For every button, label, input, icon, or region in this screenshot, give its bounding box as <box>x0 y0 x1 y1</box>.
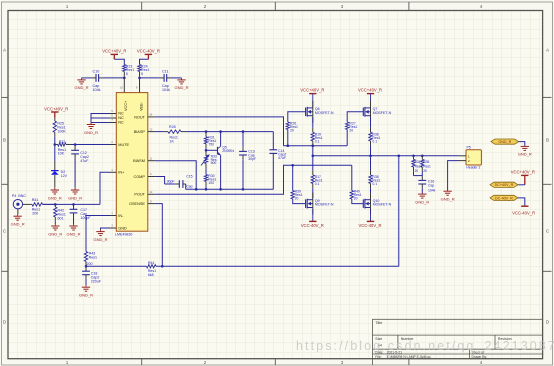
svg-text:13: 13 <box>149 190 153 194</box>
pin 13 stub <box>148 190 155 194</box>
resistor R39 (gate, Q9) <box>291 164 306 204</box>
svg-text:5: 5 <box>141 72 143 76</box>
resistor R26 (gate) <box>286 112 306 146</box>
svg-text:MOSFET-N: MOSFET-N <box>373 111 392 115</box>
svg-text:104k: 104k <box>162 88 170 92</box>
svg-text:GND_R: GND_R <box>84 130 98 135</box>
watermark URL <box>296 339 554 353</box>
svg-text:File:: File: <box>375 355 381 359</box>
svg-text:Res1: Res1 <box>423 165 431 169</box>
wire R32 to MUTE pin <box>75 144 109 146</box>
resistor R30 <box>204 174 216 189</box>
transistor Q6 MOSFET-N <box>306 94 334 123</box>
svg-text:200: 200 <box>87 262 93 266</box>
svg-text:GND_R: GND_R <box>441 197 455 202</box>
wire port GND_R to ground <box>519 142 525 146</box>
svg-text:1K: 1K <box>170 140 175 144</box>
svg-text:12: 12 <box>149 127 153 131</box>
wire COMP to C15 <box>155 177 164 185</box>
wire feedback net <box>86 156 399 268</box>
svg-text:NC: NC <box>118 116 124 120</box>
svg-text:47uF: 47uF <box>278 156 286 160</box>
svg-text:VCC+40V_R: VCC+40V_R <box>300 87 324 92</box>
svg-text:500: 500 <box>211 161 217 165</box>
svg-text:DC+40V_R: DC+40V_R <box>495 183 514 187</box>
svg-text:30pF: 30pF <box>248 157 256 161</box>
svg-text:MUTE: MUTE <box>118 143 129 147</box>
ground GND_R at NC pins <box>84 123 98 135</box>
svg-text:Cap: Cap <box>186 185 192 189</box>
svg-text:MOSFET-N: MOSFET-N <box>315 111 334 115</box>
svg-text:100K: 100K <box>57 129 66 133</box>
ground GND_R at C11 <box>174 78 188 90</box>
svg-text:VCC-40V_R: VCC-40V_R <box>301 223 324 228</box>
connector P4 BNC <box>12 194 31 214</box>
ground GND_R at D2 <box>48 188 62 200</box>
svg-text:20: 20 <box>295 196 299 200</box>
ground GND_R at header <box>441 191 455 202</box>
svg-text:0.1: 0.1 <box>372 182 377 186</box>
svg-text:4: 4 <box>480 4 483 9</box>
svg-text:VCC+40V_R: VCC+40V_R <box>102 48 126 53</box>
svg-text:2: 2 <box>204 360 207 365</box>
svg-text:C15: C15 <box>186 174 192 178</box>
capacitor C15 <box>165 174 193 188</box>
title block <box>373 319 543 365</box>
wire to IN+ pin <box>100 172 109 204</box>
svg-text:R44: R44 <box>148 261 154 265</box>
pin 5 stub (left) <box>109 109 116 113</box>
resistor R34 <box>412 156 422 176</box>
diode D2 zener 12V <box>51 170 68 188</box>
svg-text:GND_R: GND_R <box>68 195 82 200</box>
wire POUT net <box>155 165 352 194</box>
resistor R19 (source) <box>311 117 323 156</box>
node feedback junction <box>85 265 88 268</box>
wire DC-40V_R port to VCC- <box>518 198 525 206</box>
svg-text:30pF: 30pF <box>167 179 175 183</box>
svg-text:NC: NC <box>118 112 124 116</box>
resistor R28 <box>155 125 185 143</box>
svg-text:16: 16 <box>120 86 124 90</box>
svg-text:104k: 104k <box>93 88 101 92</box>
pin V- (IC top pin stub) <box>136 78 140 93</box>
op-amp driver IC U5 LME49830 <box>116 93 148 232</box>
svg-text:20: 20 <box>423 169 427 173</box>
svg-text:14: 14 <box>149 113 153 117</box>
wire output rail <box>312 155 459 158</box>
svg-text:GND_R: GND_R <box>93 237 107 242</box>
node R31/R33 junction <box>205 149 208 152</box>
svg-text:Header 2: Header 2 <box>466 166 480 170</box>
capacitor C12 <box>71 145 89 188</box>
svg-text:IN-: IN- <box>118 214 124 218</box>
svg-text:D2: D2 <box>61 170 66 174</box>
svg-text:VCC+40V_R: VCC+40V_R <box>44 106 68 111</box>
pin 1 stub (left) <box>109 211 116 215</box>
svg-text:P5: P5 <box>467 146 471 150</box>
svg-text:MOSFET-N: MOSFET-N <box>373 203 392 207</box>
svg-text:P4: P4 <box>12 194 16 198</box>
resistor R23 <box>123 64 135 78</box>
ground GND_R at C12 <box>68 188 82 200</box>
port DC+40V_R <box>490 182 518 187</box>
resistor R24 <box>138 64 150 78</box>
wire GND pin to ground <box>101 228 110 230</box>
wire GSENSE net <box>155 204 162 267</box>
svg-text:2: 2 <box>204 4 207 9</box>
resistor R35 <box>421 156 431 176</box>
port DC-40V_R <box>490 195 518 200</box>
svg-text:GSENSE: GSENSE <box>129 202 145 206</box>
svg-text:104k: 104k <box>428 188 436 192</box>
svg-text:BNC: BNC <box>18 194 26 198</box>
svg-text:GND_R: GND_R <box>174 85 188 90</box>
svg-text:12V: 12V <box>61 174 68 178</box>
svg-text:VCC-40V_R: VCC-40V_R <box>358 223 381 228</box>
resistor R38 (source, Q10) <box>369 156 381 199</box>
svg-text:0.1: 0.1 <box>315 182 320 186</box>
node MUTE junction <box>54 143 57 146</box>
resistor R36 (source) <box>369 117 381 156</box>
svg-text:DC-40V_R: DC-40V_R <box>495 196 513 200</box>
svg-text:601: 601 <box>58 217 64 221</box>
wire VCC- to R24 <box>140 59 149 64</box>
svg-text:GND_R: GND_R <box>48 231 62 236</box>
svg-text:R32: R32 <box>59 140 66 144</box>
svg-text:20: 20 <box>415 169 419 173</box>
svg-text:BIASP: BIASP <box>134 130 146 134</box>
svg-text:B: B <box>3 138 6 143</box>
ground GND_R at IC GND pin <box>93 230 107 242</box>
svg-text:R35: R35 <box>423 160 429 164</box>
power symbol VCC-40V_R (top, feeds R24) <box>137 48 160 59</box>
svg-text:20: 20 <box>290 129 294 133</box>
svg-text:0.1: 0.1 <box>372 139 377 143</box>
svg-text:20: 20 <box>349 129 353 133</box>
svg-text:20: 20 <box>354 196 358 200</box>
ground GND_R at C18 <box>79 285 93 297</box>
svg-text:R41: R41 <box>32 198 39 202</box>
power symbol VCC-40V_R at Q9 <box>301 221 324 228</box>
svg-text:R28: R28 <box>169 125 176 129</box>
svg-text:GND_R: GND_R <box>66 231 80 236</box>
svg-text:200: 200 <box>32 212 38 216</box>
svg-text:220uF: 220uF <box>91 280 102 284</box>
node V+ junction <box>123 77 126 80</box>
wire IN- to feedback node <box>86 216 109 252</box>
pin 8 stub <box>148 199 155 203</box>
power symbol VCC-40V_R at Q10 <box>358 221 381 228</box>
power symbol VCC-40V_R at DC port <box>512 206 535 215</box>
ground GND_R at C17 <box>66 224 80 236</box>
resistor R40 (gate, Q10) <box>350 165 363 203</box>
pin 6 stub (left) <box>109 114 116 118</box>
svg-text:BIASM: BIASM <box>133 159 145 163</box>
capacitor C14 <box>269 132 286 190</box>
svg-text:E:\MBKR8 N:\ AMP E-5cM.sc: E:\MBKR8 N:\ AMP E-5cM.sc <box>387 355 432 359</box>
svg-text:R34: R34 <box>415 160 421 164</box>
resistor R17 (source, Q9) <box>311 156 323 199</box>
resistor R31 <box>204 132 216 151</box>
resistor R27 (gate) <box>346 112 364 146</box>
svg-text:NC: NC <box>118 121 124 125</box>
node V- junction <box>138 77 141 80</box>
wire header pin2 to ground <box>448 161 459 191</box>
svg-text:10K: 10K <box>58 152 65 156</box>
power symbol VCC+40V_R (top, feeds R23) <box>102 48 126 59</box>
svg-text:GND: GND <box>118 227 127 231</box>
resistor R43 <box>84 251 97 266</box>
capacitor C17 <box>70 204 92 224</box>
pin 2 stub (left) <box>109 140 116 144</box>
ground GND_R at port <box>518 146 532 157</box>
svg-text:3: 3 <box>341 360 344 365</box>
capacitor C18 <box>82 266 102 285</box>
transistor Q9 MOSFET-N <box>306 193 334 222</box>
pin 4 stub (left) <box>109 168 116 172</box>
power symbol VCC+40V_R (mute pull-up) <box>44 106 68 117</box>
svg-text:GND_R: GND_R <box>74 85 88 90</box>
svg-text:VEE-: VEE- <box>139 101 143 111</box>
svg-text:47uF: 47uF <box>80 159 89 163</box>
wire VCC+ to R23 <box>114 59 124 64</box>
transistor Q7 MOSFET-N <box>363 94 391 123</box>
svg-text:GND_R: GND_R <box>498 140 511 144</box>
svg-text:VCC+40V_R: VCC+40V_R <box>511 169 535 174</box>
pin 7 stub (left) <box>109 118 116 122</box>
pin 11 stub <box>148 156 155 160</box>
svg-text:1: 1 <box>66 4 69 9</box>
wire BIASP rail <box>185 130 273 133</box>
resistor R42 <box>54 204 66 224</box>
svg-text:B: B <box>546 138 549 143</box>
svg-text:Res1: Res1 <box>89 255 97 259</box>
connector P5 Header 2 <box>459 146 482 170</box>
resistor R25 <box>53 118 66 145</box>
wire MUTE junction to D2 <box>54 145 56 171</box>
resistor R41 <box>31 198 56 215</box>
pin 14 stub <box>148 113 155 117</box>
wire R34/R35 join <box>414 175 423 177</box>
svg-text:VCC+40V_R: VCC+40V_R <box>358 87 382 92</box>
svg-text:GND_R: GND_R <box>48 195 62 200</box>
wire NOUT net <box>155 117 283 146</box>
svg-text:Title: Title <box>375 321 382 325</box>
transistor Q10 MOSFET-N <box>363 193 391 222</box>
wire NC pins to ground <box>91 114 109 123</box>
port GND_R <box>491 139 519 144</box>
pin 6 stub <box>148 172 155 176</box>
transistor Q5 2N3904 <box>206 132 234 190</box>
power symbol VCC+40V_R at Q6 <box>300 87 324 93</box>
wire top gate bus <box>284 144 348 147</box>
svg-text:11: 11 <box>149 156 152 160</box>
svg-text:GND_R: GND_R <box>79 293 93 298</box>
svg-text:2N3904: 2N3904 <box>222 149 234 153</box>
node C12 junction <box>74 143 77 146</box>
pin V+ (IC top pin stub) <box>120 78 124 93</box>
svg-text:6k8: 6k8 <box>148 273 154 277</box>
potentiometer R33 <box>201 150 217 174</box>
svg-text:Drawn By:: Drawn By: <box>472 355 488 359</box>
svg-text:3: 3 <box>341 4 344 9</box>
svg-text:5: 5 <box>126 72 128 76</box>
svg-text:GND_R: GND_R <box>518 152 532 157</box>
capacitor C13 <box>239 132 256 190</box>
svg-text:IN+: IN+ <box>118 171 125 175</box>
capacitor C11 <box>140 70 182 92</box>
ground GND_R at R42 <box>48 224 62 236</box>
ground GND_R at C10 <box>74 78 88 90</box>
svg-text:VCC-40V_R: VCC-40V_R <box>137 48 160 53</box>
resistor R44 <box>146 261 156 277</box>
pin 12 stub <box>148 127 155 131</box>
svg-text:LME49830: LME49830 <box>115 232 132 236</box>
svg-text:1: 1 <box>66 360 69 365</box>
svg-text:NOUT: NOUT <box>134 115 145 119</box>
wire C15 to BIASM rail <box>185 184 187 189</box>
svg-text:C10: C10 <box>93 70 100 74</box>
svg-text:4: 4 <box>480 360 483 365</box>
svg-text:GND_R: GND_R <box>415 199 429 204</box>
svg-text:0.1: 0.1 <box>315 139 320 143</box>
wire input node <box>43 203 101 206</box>
svg-text:VCC+: VCC+ <box>124 100 128 111</box>
wire VCC+ to DC+40V_R port <box>518 184 525 186</box>
svg-text:MOSFET-N: MOSFET-N <box>315 203 334 207</box>
svg-text:https://blog.csdn.net/qq_24213: https://blog.csdn.net/qq_24213087 <box>296 339 554 353</box>
IC U5 part label LME49830 <box>115 232 132 236</box>
capacitor C16 <box>418 176 435 194</box>
wire BIASM pin to rail <box>155 161 196 190</box>
ground GND_R at BNC <box>11 214 25 226</box>
svg-text:GND_R: GND_R <box>11 222 25 227</box>
svg-text:Cap: Cap <box>428 183 434 187</box>
svg-text:COMP: COMP <box>133 175 145 179</box>
svg-text:POUT: POUT <box>134 193 145 197</box>
svg-text:750: 750 <box>208 143 214 147</box>
svg-text:VCC-40V_R: VCC-40V_R <box>512 210 535 215</box>
svg-text:100: 100 <box>208 181 214 185</box>
power symbol VCC+40V_R at DC port <box>511 169 535 184</box>
wire BIASM rail <box>186 188 274 191</box>
power symbol VCC+40V_R at Q7 <box>358 87 382 93</box>
ground GND_R at C16 <box>415 194 429 205</box>
resistor R32 <box>55 140 75 156</box>
svg-text:C11: C11 <box>162 70 169 74</box>
pin 3 stub (left) <box>109 224 116 228</box>
capacitor C10 <box>82 70 125 92</box>
